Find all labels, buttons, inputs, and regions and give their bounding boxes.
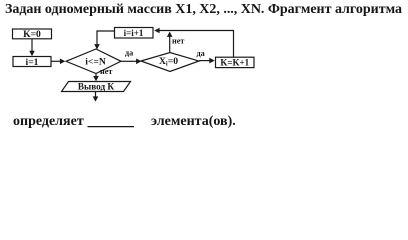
svg-text:i<=N: i<=N [85, 56, 106, 67]
svg-text:Вывод К: Вывод К [78, 81, 114, 91]
box i=i+1 [115, 28, 154, 39]
wire net branch D2 top up to feedback [167, 32, 173, 53]
svg-text:нет: нет [100, 67, 112, 76]
box i=1 [13, 57, 51, 68]
box K=0 [13, 29, 52, 40]
svg-text:Задан одномерный массив X1, X2: Задан одномерный массив X1, X2, ..., XN.… [5, 2, 402, 17]
decision D1 i<=N [66, 49, 121, 74]
label net 1 [100, 67, 112, 76]
wire K=0 to i=1 [29, 39, 35, 56]
label da 2 [197, 49, 205, 58]
output parallelogram Vyvod K [62, 81, 131, 91]
svg-text:определяет: определяет [13, 114, 84, 129]
box K=K+1 [216, 57, 255, 67]
top caption line [5, 2, 402, 17]
svg-text:нет: нет [172, 37, 184, 46]
wire D1 to D2 [121, 59, 142, 65]
bottom caption line [13, 114, 236, 129]
svg-text:Xi=0: Xi=0 [159, 56, 178, 68]
label da 1 [125, 49, 133, 58]
wire loop i=i+1 to D1 top [94, 31, 114, 50]
svg-text:K=0: K=0 [23, 29, 41, 40]
decision D2 Xi=0 [141, 53, 199, 72]
wire terminal arrow down [93, 92, 99, 102]
label net 2 [172, 37, 184, 46]
wire feedback K=K+1 up and left to i=i+1 [154, 28, 233, 58]
wire D2 to K=K+1 [199, 58, 215, 64]
svg-text:K=K+1: K=K+1 [220, 57, 249, 67]
wire i=1 to decision i<=N [51, 59, 65, 65]
svg-text:i=i+1: i=i+1 [124, 28, 144, 38]
svg-text:элемента(ов).: элемента(ов). [151, 114, 236, 129]
svg-text:да: да [197, 49, 205, 58]
svg-text:да: да [125, 49, 133, 58]
svg-text:i=1: i=1 [26, 57, 39, 68]
wire D1 bottom to output [93, 74, 99, 82]
